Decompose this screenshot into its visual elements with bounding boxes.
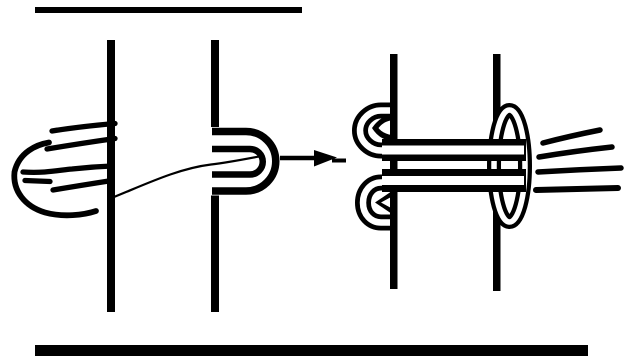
- warp bar B (left figure, right cord): [211, 40, 219, 312]
- arrow nub: [332, 159, 346, 163]
- thread end 3: [538, 168, 621, 172]
- thread run 2 (lower tube): [382, 169, 526, 192]
- thread end 4: [536, 188, 618, 190]
- right loop 2 arm+arc (behind bar C): [363, 183, 391, 223]
- thread stroke 3: [23, 166, 112, 172]
- thread run 1 (upper tube): [382, 139, 526, 161]
- loop 2 inner wedge: [375, 191, 392, 214]
- folded loop outer U: [212, 132, 276, 192]
- thread stroke 2: [47, 139, 115, 150]
- warp bar D (right figure, right cord): [493, 54, 501, 291]
- thread end 2: [539, 147, 612, 157]
- folded loop white fill (covers bar B): [211, 127, 280, 196]
- warp bar C (right figure, left cord): [390, 54, 398, 289]
- warp bar A (left figure, left cord): [107, 40, 115, 312]
- thread end 1: [543, 130, 600, 143]
- thread stroke 1: [52, 124, 115, 132]
- ring around bar D: [494, 110, 525, 222]
- thread stroke 5: [53, 181, 112, 191]
- folded loop inner U: [212, 149, 263, 175]
- thread stroke 4 short dash: [25, 181, 50, 182]
- leader cord (thin curve): [114, 157, 259, 198]
- top scan bar: [35, 7, 302, 13]
- arrow head: [314, 150, 337, 167]
- thread bundle oval (left blob outline): [14, 143, 96, 216]
- arrow shaft: [280, 156, 318, 161]
- loop 1 inner wedge: [372, 115, 392, 142]
- right loop 1 arm+arc (behind bar C): [360, 111, 391, 151]
- bottom scan bar: [35, 345, 588, 356]
